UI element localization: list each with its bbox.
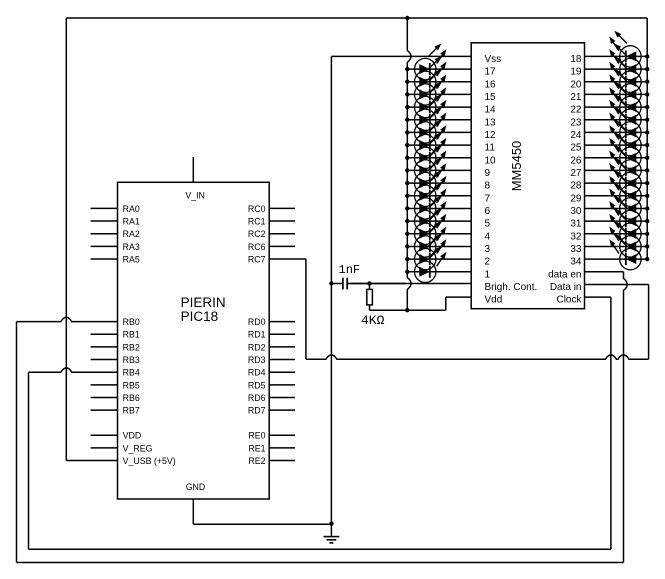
svg-text:20: 20: [570, 79, 582, 90]
svg-text:Clock: Clock: [556, 295, 582, 306]
svg-text:RB3: RB3: [123, 355, 140, 365]
svg-text:4: 4: [485, 231, 491, 242]
svg-text:3: 3: [485, 244, 491, 255]
svg-text:RB5: RB5: [123, 380, 140, 390]
svg-text:17: 17: [485, 67, 497, 78]
svg-text:9: 9: [485, 168, 491, 179]
svg-text:RD4: RD4: [248, 368, 266, 378]
svg-text:29: 29: [570, 193, 582, 204]
svg-text:33: 33: [570, 244, 582, 255]
svg-text:22: 22: [570, 105, 582, 116]
svg-text:8: 8: [485, 181, 491, 192]
svg-text:19: 19: [570, 67, 582, 78]
svg-text:21: 21: [570, 92, 582, 103]
svg-text:12: 12: [485, 130, 497, 141]
svg-text:30: 30: [570, 206, 582, 217]
svg-text:RA1: RA1: [123, 216, 140, 226]
svg-text:data en: data en: [548, 269, 581, 280]
svg-text:Data in: Data in: [550, 282, 582, 293]
svg-text:RB1: RB1: [123, 330, 140, 340]
svg-text:27: 27: [570, 168, 582, 179]
svg-text:Brigh. Cont.: Brigh. Cont.: [485, 282, 538, 293]
svg-text:MM5450: MM5450: [509, 141, 524, 192]
svg-text:RA3: RA3: [123, 242, 140, 252]
svg-text:34: 34: [570, 257, 582, 268]
svg-text:10: 10: [485, 155, 497, 166]
svg-text:RB2: RB2: [123, 342, 140, 352]
svg-text:PIC18: PIC18: [181, 309, 219, 324]
svg-text:13: 13: [485, 117, 497, 128]
svg-text:1nF: 1nF: [339, 263, 361, 277]
svg-text:RE2: RE2: [248, 456, 265, 466]
svg-text:2: 2: [485, 257, 491, 268]
svg-text:24: 24: [570, 130, 582, 141]
svg-text:RD2: RD2: [248, 342, 266, 352]
svg-text:31: 31: [570, 219, 582, 230]
svg-text:RD1: RD1: [248, 330, 266, 340]
svg-text:4KΩ: 4KΩ: [361, 313, 385, 328]
svg-text:PIERIN: PIERIN: [181, 295, 226, 310]
svg-text:RD3: RD3: [248, 355, 266, 365]
svg-text:RD0: RD0: [248, 317, 266, 327]
svg-text:V_USB (+5V): V_USB (+5V): [123, 456, 176, 466]
svg-text:RC2: RC2: [248, 229, 266, 239]
svg-text:32: 32: [570, 231, 582, 242]
svg-text:GND: GND: [186, 482, 206, 492]
svg-text:V_IN: V_IN: [185, 190, 205, 200]
svg-text:25: 25: [570, 143, 582, 154]
svg-text:18: 18: [570, 54, 582, 65]
svg-text:RE1: RE1: [248, 443, 265, 453]
svg-text:11: 11: [485, 143, 496, 154]
svg-text:23: 23: [570, 117, 582, 128]
svg-text:26: 26: [570, 155, 582, 166]
svg-text:RE0: RE0: [248, 431, 265, 441]
svg-text:RC0: RC0: [248, 204, 266, 214]
svg-text:28: 28: [570, 181, 582, 192]
svg-text:RC7: RC7: [248, 254, 266, 264]
svg-text:RA5: RA5: [123, 254, 140, 264]
svg-text:RB6: RB6: [123, 393, 140, 403]
svg-text:RB4: RB4: [123, 368, 140, 378]
svg-text:16: 16: [485, 79, 497, 90]
svg-text:Vss: Vss: [485, 54, 502, 65]
svg-text:VDD: VDD: [123, 431, 142, 441]
svg-text:RC1: RC1: [248, 216, 266, 226]
svg-text:Vdd: Vdd: [485, 295, 503, 306]
svg-text:14: 14: [485, 105, 497, 116]
svg-text:RD5: RD5: [248, 380, 266, 390]
svg-text:15: 15: [485, 92, 497, 103]
svg-text:7: 7: [485, 193, 491, 204]
svg-text:5: 5: [485, 219, 491, 230]
svg-text:V_REG: V_REG: [123, 443, 153, 453]
svg-text:RA2: RA2: [123, 229, 140, 239]
svg-text:RA0: RA0: [123, 204, 140, 214]
svg-text:1: 1: [485, 269, 491, 280]
svg-text:RB7: RB7: [123, 406, 140, 416]
svg-text:RD7: RD7: [248, 406, 266, 416]
svg-text:6: 6: [485, 206, 491, 217]
svg-text:RB0: RB0: [123, 317, 140, 327]
svg-text:RD6: RD6: [248, 393, 266, 403]
svg-text:RC6: RC6: [248, 242, 266, 252]
